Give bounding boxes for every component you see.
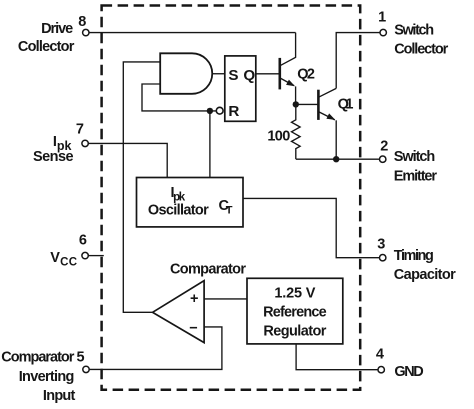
svg-text:100: 100 [267, 129, 290, 145]
svg-text:3: 3 [377, 236, 385, 252]
svg-text:VCC: VCC [50, 250, 77, 269]
wire reference regulator to pin4 GND [296, 344, 378, 370]
resistor 100 ohm [292, 104, 301, 159]
IC package dashed outline [102, 6, 361, 390]
svg-text:6: 6 [79, 233, 87, 249]
wire latch Q output to Q2 base [256, 73, 280, 75]
svg-text:5: 5 [77, 349, 85, 365]
svg-text:Comparator: Comparator [170, 262, 246, 278]
wire R feedback to AND gate lower input [142, 84, 217, 111]
svg-text:Reference: Reference [263, 304, 327, 320]
wire AND gate output to latch [212, 73, 225, 75]
wire R node to oscillator [209, 111, 211, 178]
transistor Q1 [318, 88, 336, 159]
1.25V reference regulator box [247, 278, 343, 344]
node junction Q2 emitter / Q1 base [293, 101, 299, 107]
svg-text:GND: GND [394, 364, 423, 380]
pin 6 terminal [82, 252, 88, 258]
node junction R input [207, 108, 213, 114]
svg-text:+: + [190, 291, 198, 307]
svg-text:Q: Q [243, 67, 255, 84]
pin 3 terminal [380, 255, 386, 261]
latch R inversion bubble [216, 107, 223, 114]
wire switch emitter rail to pin2 [296, 158, 379, 160]
svg-text:Q1: Q1 [338, 97, 354, 113]
svg-text:−: − [189, 320, 197, 336]
svg-text:Capacitor: Capacitor [394, 267, 456, 283]
svg-text:1: 1 [378, 9, 386, 25]
AND gate U1 [160, 53, 212, 94]
svg-text:Regulator: Regulator [263, 324, 326, 340]
wire Q2 emitter node to Q1 base [296, 103, 318, 105]
pin 4 terminal [378, 367, 384, 373]
svg-text:7: 7 [76, 121, 84, 137]
svg-text:Collector: Collector [18, 39, 75, 55]
svg-text:Inverting: Inverting [19, 369, 75, 385]
svg-text:Input: Input [43, 388, 76, 404]
svg-text:1.25 V: 1.25 V [274, 285, 315, 301]
comparator U2 [153, 281, 205, 343]
pin 2 terminal [380, 156, 386, 162]
wire reference regulator to comparator plus input [204, 298, 247, 300]
pin 5 terminal [83, 366, 89, 372]
svg-text:Timing: Timing [394, 248, 434, 264]
svg-text:R: R [228, 103, 239, 120]
wire pin8 to Q2 collector [89, 32, 295, 34]
wire pin7 to oscillator [89, 143, 168, 177]
pin 1 terminal [380, 29, 386, 35]
svg-text:CT: CT [219, 198, 233, 217]
svg-text:Comparator: Comparator [1, 350, 74, 366]
svg-text:Ipk: Ipk [171, 185, 186, 204]
svg-text:Switch: Switch [394, 23, 434, 39]
transistor Q2 [280, 33, 296, 105]
svg-text:Drive: Drive [41, 21, 73, 37]
wire comparator output to AND gate input [123, 62, 160, 312]
wire CT oscillator output to pin3 [243, 198, 379, 257]
svg-text:2: 2 [380, 138, 388, 154]
node junction Q1 emitter / pin2 rail [333, 156, 339, 162]
wire pin6 stub [89, 255, 104, 257]
svg-text:4: 4 [376, 347, 384, 363]
wire pin5 to comparator inverting input [90, 327, 222, 370]
svg-text:S: S [228, 67, 238, 84]
svg-text:Switch: Switch [394, 149, 435, 165]
svg-text:Q2: Q2 [297, 66, 315, 82]
pin 8 terminal [83, 29, 89, 35]
svg-text:Collector: Collector [394, 41, 448, 57]
SR latch box [225, 56, 256, 121]
svg-text:Oscillator: Oscillator [148, 202, 209, 218]
pin 7 terminal [82, 140, 88, 146]
svg-text:Sense: Sense [33, 149, 74, 165]
oscillator box [137, 178, 244, 227]
svg-text:Emitter: Emitter [394, 168, 438, 184]
svg-text:8: 8 [78, 14, 86, 30]
wire pin1 to Q1 collector [336, 33, 379, 89]
